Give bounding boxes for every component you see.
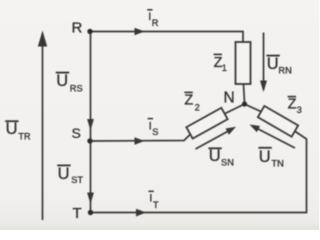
voltage arrow U_RS (R down to S)	[87, 34, 94, 139]
node N (dot)	[242, 101, 247, 106]
svg-text:T: T	[153, 200, 159, 210]
svg-text:Z: Z	[288, 97, 297, 113]
svg-text:U: U	[209, 147, 221, 165]
svg-text:U: U	[6, 120, 18, 138]
svg-text:2: 2	[195, 102, 200, 112]
svg-text:U: U	[267, 55, 279, 73]
voltage arrow U_RN (down along Z1)	[260, 33, 267, 93]
label U_ST with overbar	[57, 165, 83, 185]
current arrow I_T	[136, 209, 146, 217]
svg-text:I: I	[149, 193, 152, 205]
svg-text:TN: TN	[271, 158, 283, 168]
label Z2 with overbar	[184, 92, 199, 112]
wire: node N to Z3	[245, 104, 264, 113]
voltage arrow U_TR (left, pointing up)	[38, 31, 47, 221]
voltage arrow U_ST (S down to T)	[87, 143, 94, 210]
svg-text:T: T	[73, 205, 82, 222]
label Z3 with overbar	[288, 97, 302, 115]
wire: Z1 bottom to node N	[244, 84, 245, 103]
wire: line T horizontal to right edge then up	[91, 130, 307, 213]
svg-text:RS: RS	[70, 84, 83, 94]
label U_RN with overbar	[266, 55, 291, 75]
svg-text:I: I	[148, 11, 151, 23]
label U_TN with overbar	[258, 148, 283, 169]
voltage arrow U_TN (up-left toward N)	[250, 125, 296, 149]
svg-text:TR: TR	[18, 131, 31, 141]
node T (dot)	[88, 210, 93, 215]
node S (dot)	[87, 138, 92, 143]
svg-text:1: 1	[222, 63, 227, 73]
label U_SN with overbar	[208, 147, 234, 168]
wire: Z2 to node N	[222, 104, 245, 115]
voltage arrow U_SN (up-right toward N)	[196, 127, 237, 149]
svg-text:ST: ST	[71, 175, 83, 185]
svg-text:SN: SN	[221, 158, 234, 168]
svg-text:S: S	[72, 125, 81, 141]
label U_RS with overbar	[56, 72, 83, 93]
svg-text:R: R	[72, 20, 83, 37]
label I_T with overbar	[148, 191, 159, 210]
svg-text:U: U	[58, 165, 70, 183]
label I_S with overbar	[148, 119, 159, 137]
label I_R with overbar	[147, 10, 159, 28]
svg-text:N: N	[224, 90, 235, 107]
svg-text:RN: RN	[278, 65, 291, 75]
label U_TR with overbar	[5, 120, 31, 141]
svg-text:U: U	[259, 148, 271, 166]
impedance Z1 (box)	[236, 42, 251, 84]
svg-text:Z: Z	[184, 93, 193, 109]
label Z1 with overbar	[214, 54, 227, 73]
impedance Z2 (tilted box)	[186, 108, 227, 139]
svg-text:S: S	[152, 127, 158, 137]
current arrow I_S	[135, 137, 145, 145]
current arrow I_R	[135, 28, 145, 36]
wire: line S horizontal then diagonal to Z2	[90, 132, 193, 141]
svg-text:R: R	[152, 18, 159, 28]
impedance Z3 (tilted box)	[258, 106, 298, 137]
node R (dot)	[87, 29, 92, 34]
svg-text:3: 3	[297, 105, 302, 115]
svg-text:U: U	[56, 72, 68, 90]
wire: line R horizontal then down to Z1	[90, 32, 243, 43]
